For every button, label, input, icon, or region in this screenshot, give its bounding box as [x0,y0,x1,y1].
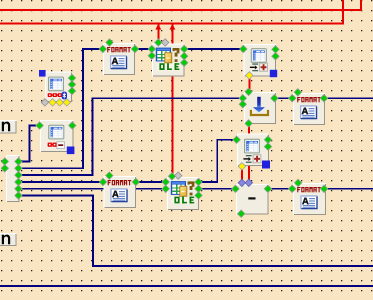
wire hub d4 -> y=182 chain -> F left [19,140,237,182]
block FORMAT2 [293,93,325,125]
red wire to OLE2 top [171,24,173,177]
block E points [238,179,252,186]
blue square marker near A [39,70,46,77]
block C points [240,45,280,60]
block FORMAT3 [104,176,137,208]
block E (minus) [236,184,269,215]
red wire to OLE1 top [157,24,159,43]
blue square marker B [67,147,75,155]
block D points [239,88,278,127]
block FORMAT1 [103,43,135,75]
n box 2 [0,233,17,246]
red wire F bottom to E top [241,166,243,183]
FORMAT1 points [99,39,139,53]
bottom bus wire [0,285,373,287]
OLE1 points [162,39,169,46]
red arrowheads [155,24,175,30]
red wire C bottom to D top [248,76,250,92]
block A (table with chain) [45,72,72,103]
red event bus line 2 [0,0,343,24]
wire hub d2 -> top chain y=49 [19,49,244,168]
block C (table +/-) [244,44,277,77]
block A points [68,74,75,94]
block B (table with chain2 + dash) [40,120,74,152]
block F (table +/- lower) [237,134,269,167]
red wire D bottom to E top [248,124,250,183]
wire hub d5 -> y=188.8 chain to right edge [19,188,373,190]
block D (download) [244,92,276,124]
n box 1 [0,120,17,134]
wire hub d1 -> block B [19,126,40,162]
OLE2 points [175,172,182,179]
hub points [1,158,22,199]
FORMAT4 points [289,179,328,192]
red event bus line 1 [0,0,361,10]
block OLE1 [152,44,185,77]
block F points [233,136,272,150]
wire hub d6 -> bottom right [19,196,373,267]
hub block [6,155,20,202]
block B points [36,122,76,129]
FORMAT3 points [99,172,139,186]
FORMAT2 points [289,89,328,102]
wire hub d3 -> y=98 chain to right edge [19,98,373,175]
block OLE2 [167,177,199,210]
block FORMAT4 [293,183,326,215]
